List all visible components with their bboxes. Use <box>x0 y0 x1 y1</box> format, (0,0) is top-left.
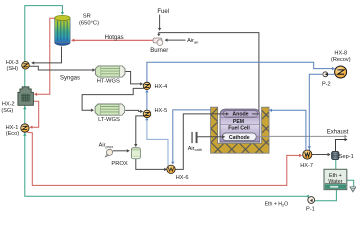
heat exchanger HX-3 <box>22 62 30 70</box>
wire HT-WGS to HX-4 (gray) <box>125 72 143 86</box>
wire syngas SR bottom to HX-3 (gray) <box>31 47 61 65</box>
svg-text:LT-WGS: LT-WGS <box>98 117 120 123</box>
svg-text:HX-7: HX-7 <box>300 163 313 169</box>
svg-text:HX-5: HX-5 <box>155 108 168 114</box>
wire hotgas HX-1 to HX-7 along bottom (red) <box>27 132 302 186</box>
shift reactor HT-WGS <box>95 66 125 77</box>
wire PROX to HX-6 (gray) <box>136 159 167 172</box>
wire water HX-4 to HX-8 (blue) <box>147 62 335 82</box>
svg-text:HX-3: HX-3 <box>6 60 19 66</box>
wire stack coolant left to HX-6 (blue) <box>171 110 211 165</box>
wire syngas HX-3 to HT-WGS (gray) <box>29 66 96 71</box>
heat exchanger HX-8 <box>335 66 347 78</box>
svg-text:HX-8: HX-8 <box>334 50 347 56</box>
svg-text:Syngas: Syngas <box>60 76 80 82</box>
svg-text:PEM: PEM <box>233 119 244 125</box>
wire anode off-gas to burner (gray) <box>157 33 259 114</box>
wire air to burner (gray) <box>165 38 186 41</box>
reactor PROX <box>131 148 140 159</box>
svg-text:Eth + H2O: Eth + H2O <box>265 202 289 208</box>
svg-text:Fuel: Fuel <box>157 9 169 15</box>
svg-text:Anode: Anode <box>232 112 248 118</box>
cathode band <box>222 133 256 141</box>
svg-text:P-1: P-1 <box>306 206 315 212</box>
blower air-prox <box>105 149 112 157</box>
wire LT-WGS to HX-5 (gray) <box>125 110 143 113</box>
wire cathode exhaust to exhaust (light gray, over housing) <box>262 135 348 138</box>
wire water HX-6 to HX-5 (light blue) <box>145 118 168 166</box>
wire reformate HX-6 to anode (gray, over housing) <box>175 112 229 169</box>
reformer SR <box>55 15 70 45</box>
svg-text:HX-2: HX-2 <box>2 102 15 108</box>
wire anode inner stub (gray) <box>252 113 259 115</box>
svg-text:HT-WGS: HT-WGS <box>97 78 120 84</box>
svg-text:Fuel Cell: Fuel Cell <box>228 126 250 132</box>
svg-text:HX-1: HX-1 <box>6 125 19 131</box>
pump P-1 <box>308 197 315 204</box>
drain symbol <box>350 187 356 192</box>
shift reactor LT-WGS <box>95 104 125 115</box>
wire separator bottoms to tank (green) <box>335 159 337 169</box>
svg-text:Cathode: Cathode <box>229 135 250 141</box>
heat exchanger HX-5 <box>143 110 151 118</box>
blower air-cath <box>191 132 197 143</box>
wire water HX-5 to HX-4 riser (blue) <box>145 90 148 110</box>
svg-text:HX-6: HX-6 <box>176 175 189 181</box>
wire hotgas burner to SR (red) <box>71 39 153 42</box>
svg-text:Aircath: Aircath <box>188 146 202 152</box>
wire condensate HX-7 to P-2 (blue) <box>308 74 322 150</box>
heat exchanger HX-7 <box>303 150 312 159</box>
steam generator HX-2 <box>18 87 34 106</box>
wire P-2 to HX-8 (blue) <box>328 73 334 75</box>
wire HX-4 to LT-WGS (gray) <box>82 88 144 112</box>
svg-text:(Recov): (Recov) <box>331 57 351 63</box>
fuel cell gold housing <box>211 107 269 153</box>
svg-text:Burner: Burner <box>150 48 168 54</box>
wire tank overflow to drain (green) <box>347 180 354 186</box>
pump P-2 <box>323 72 328 77</box>
svg-text:Exhaust: Exhaust <box>327 130 349 136</box>
wire hotgas HX-2 to HX-1 (red) <box>30 101 39 129</box>
svg-text:(SH): (SH) <box>7 66 19 72</box>
svg-text:Water: Water <box>328 179 342 185</box>
separator Sep-1 <box>332 151 339 159</box>
svg-text:Hotgas: Hotgas <box>105 35 124 41</box>
PEM fuel cell body <box>220 109 260 142</box>
svg-text:(SG): (SG) <box>1 108 13 114</box>
tank Eth + Water <box>324 169 347 189</box>
svg-text:Sep-1: Sep-1 <box>339 154 354 160</box>
svg-text:HX-4: HX-4 <box>155 84 168 90</box>
svg-text:Airan: Airan <box>187 38 198 44</box>
wire air-prox blower to PROX (gray) <box>113 149 130 152</box>
svg-text:(650°C): (650°C) <box>79 21 99 27</box>
wire fuel to burner (gray) <box>158 15 161 31</box>
svg-text:P-2: P-2 <box>322 82 331 88</box>
wire cathode inner stub (gray) <box>256 136 261 138</box>
burner <box>153 38 163 45</box>
heat exchanger HX-1 <box>21 124 29 132</box>
wire HX-5 to PROX (gray) <box>134 116 144 147</box>
svg-text:(Eco): (Eco) <box>6 131 20 137</box>
wire stack coolant right to HX-7 (blue) <box>269 109 306 151</box>
wire feed ethanol-water main green line (tank to P-1 to HX-1/2/3 to SR) <box>23 6 336 201</box>
wire hotgas SR to HX-2 (red) <box>34 18 55 96</box>
heat exchanger HX-6 <box>167 165 175 173</box>
wire cathode air feed (gray, over housing) <box>197 135 225 138</box>
heat exchanger HX-4 <box>143 82 150 89</box>
wire HX-7 to Sep-1 (gray) <box>311 153 331 156</box>
svg-text:Airprox: Airprox <box>99 143 114 149</box>
svg-text:PROX: PROX <box>111 161 128 167</box>
cell row separators <box>220 118 260 125</box>
anode band <box>223 111 258 117</box>
svg-text:SR: SR <box>83 14 91 20</box>
wire separator gas to exhaust (dark gray) <box>336 138 348 152</box>
